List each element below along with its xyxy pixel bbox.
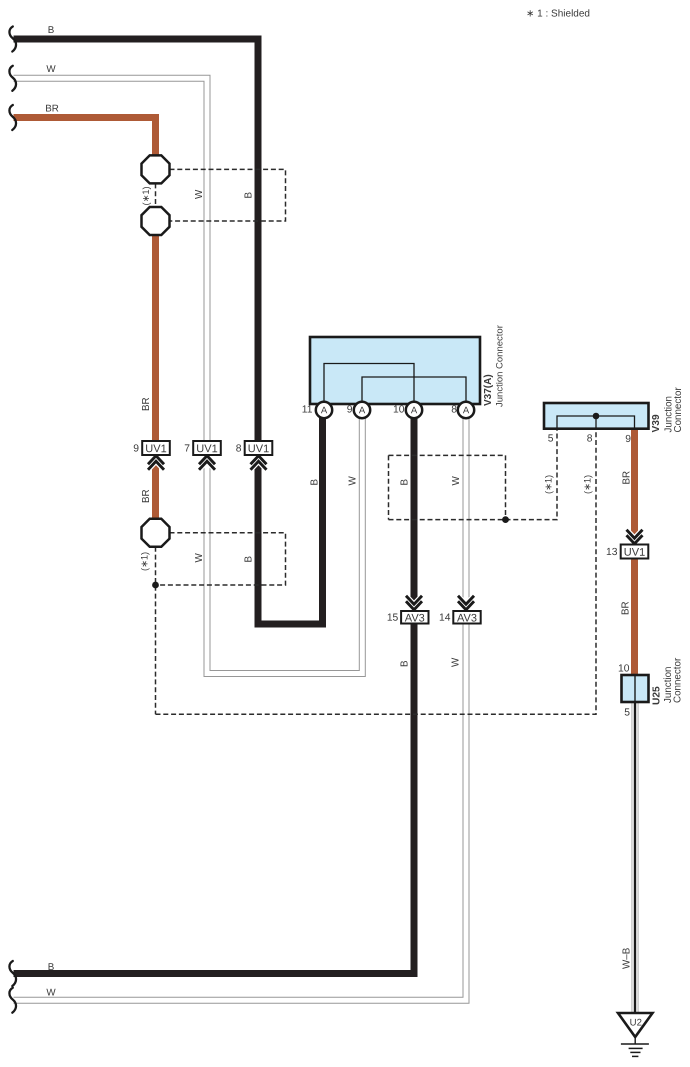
svg-text:U2: U2 bbox=[630, 1017, 642, 1028]
V37(A) internal link pin 9 to pin 8 bbox=[362, 377, 466, 403]
V37(A) pin 10 terminal A bbox=[406, 402, 422, 418]
wire B top: from left break through UV1 8 down, U-turn to V37(A) pin 11 bbox=[14, 39, 323, 624]
ground bar 4 bbox=[632, 1055, 638, 1057]
svg-text:UV1: UV1 bbox=[145, 443, 166, 455]
svg-text:W–B: W–B bbox=[622, 947, 633, 969]
svg-text:8: 8 bbox=[451, 404, 457, 415]
connector UV1 pin 9 box bbox=[142, 441, 170, 455]
break symbol wire BR top bbox=[9, 105, 16, 130]
junction connector U25 body bbox=[622, 675, 649, 702]
dashed shield run along bottom to V39 pin 8 bbox=[156, 429, 597, 715]
svg-text:U25: U25 bbox=[652, 686, 663, 705]
connector UV1 pin 13 chevron (down) bbox=[627, 530, 643, 544]
svg-text:9: 9 bbox=[625, 434, 631, 445]
connector UV1 pin 7 box bbox=[193, 441, 221, 455]
shield octagon 3 bbox=[142, 519, 170, 547]
V39 internal branch to pin 8 bbox=[595, 416, 597, 428]
junction dot on shield drain at octagon 3 branch bbox=[152, 582, 159, 589]
svg-text:A: A bbox=[321, 405, 328, 416]
ground bar 3 bbox=[630, 1051, 640, 1053]
svg-text:UV1: UV1 bbox=[248, 443, 269, 455]
svg-text:9: 9 bbox=[347, 404, 353, 415]
svg-text:V39: V39 bbox=[651, 414, 662, 432]
svg-text:W: W bbox=[451, 657, 462, 667]
svg-text:Connector: Connector bbox=[673, 657, 684, 703]
wire BR: V39 pin 9 down through UV1 13 to U25 pin 10 bbox=[631, 428, 638, 676]
svg-text:W: W bbox=[348, 476, 359, 486]
svg-text:(∗1): (∗1) bbox=[544, 475, 554, 494]
ground bar 2 bbox=[629, 1047, 643, 1049]
junction connector V39 body bbox=[544, 403, 649, 429]
svg-text:9: 9 bbox=[133, 443, 139, 454]
svg-text:W: W bbox=[194, 189, 205, 199]
break symbol wire B top bbox=[9, 27, 16, 52]
svg-text:W: W bbox=[46, 64, 56, 75]
connector UV1 pin 8 chevron bbox=[251, 456, 267, 470]
svg-text:BR: BR bbox=[141, 489, 152, 503]
svg-text:10: 10 bbox=[618, 663, 630, 674]
svg-text:5: 5 bbox=[548, 433, 554, 444]
svg-text:Connector: Connector bbox=[673, 387, 684, 433]
svg-text:(∗1): (∗1) bbox=[583, 475, 593, 494]
svg-text:8: 8 bbox=[236, 443, 242, 454]
svg-text:W: W bbox=[46, 987, 56, 998]
dashed shield box around B and W wires (pins 10/8) bbox=[389, 455, 506, 519]
svg-text:B: B bbox=[400, 660, 411, 667]
svg-text:AV3: AV3 bbox=[457, 612, 477, 624]
ground stem bbox=[634, 1037, 636, 1044]
svg-text:UV1: UV1 bbox=[196, 443, 217, 455]
V39 internal link pin 5 to pin 9 bbox=[557, 416, 635, 428]
svg-text:A: A bbox=[411, 405, 418, 416]
svg-text:11: 11 bbox=[302, 404, 313, 415]
wire W from V37(A) pin 8 down through AV3 14 to bottom-left break bbox=[14, 404, 467, 1000]
dashed shield link between octagon 1 and octagon 2 (*1) bbox=[155, 183, 157, 207]
connector AV3 pin 15 box bbox=[401, 611, 428, 625]
dashed shield link from box to V39 pin 5 bbox=[506, 429, 558, 520]
wire BR top: from left break to shield octagon 1 bbox=[14, 118, 156, 157]
svg-text:A: A bbox=[463, 405, 470, 416]
svg-text:W: W bbox=[194, 553, 205, 563]
junction dot at shield box corner bbox=[502, 516, 509, 523]
V37(A) pin 9 terminal A bbox=[354, 402, 370, 418]
dashed shield box at octagon 3 bbox=[158, 533, 286, 585]
svg-text:W: W bbox=[451, 476, 462, 486]
svg-text:8: 8 bbox=[587, 433, 593, 444]
svg-text:∗ 1 : Shielded: ∗ 1 : Shielded bbox=[526, 9, 590, 20]
connector AV3 pin 15 chevron (down) bbox=[406, 596, 422, 610]
svg-text:A: A bbox=[359, 405, 366, 416]
svg-text:(∗1): (∗1) bbox=[140, 552, 150, 571]
V37(A) pin 11 terminal A bbox=[316, 402, 332, 418]
wire W top: from left break through UV1 7 down and to V37(A) pin 9 bbox=[14, 78, 363, 673]
shield octagon 1 bbox=[142, 155, 170, 183]
break symbol wire W top bbox=[9, 66, 16, 91]
svg-text:V37(A): V37(A) bbox=[483, 374, 494, 406]
connector UV1 pin 9 chevron bbox=[148, 456, 164, 470]
U25 internal divider bbox=[634, 676, 636, 701]
svg-text:B: B bbox=[310, 479, 321, 486]
svg-text:B: B bbox=[48, 962, 55, 973]
wire BR: octagon 2 down through UV1 9 to octagon 3 bbox=[152, 234, 159, 520]
svg-text:7: 7 bbox=[184, 443, 190, 454]
connector AV3 pin 14 box bbox=[453, 611, 480, 625]
svg-text:BR: BR bbox=[141, 397, 152, 411]
connector UV1 pin 13 box bbox=[621, 545, 649, 559]
svg-text:10: 10 bbox=[393, 404, 405, 415]
shield octagon 2 bbox=[142, 207, 170, 235]
dashed shield box around top octagons (nets W and B) bbox=[170, 169, 286, 221]
svg-text:13: 13 bbox=[606, 547, 618, 558]
svg-text:Junction Connector: Junction Connector bbox=[495, 325, 506, 407]
connector UV1 pin 7 chevron bbox=[199, 456, 215, 470]
svg-text:UV1: UV1 bbox=[624, 547, 645, 559]
svg-text:BR: BR bbox=[622, 471, 633, 485]
V37(A) internal link pin 11 to pin 10 bbox=[324, 364, 414, 404]
svg-text:AV3: AV3 bbox=[405, 612, 425, 624]
wire B from V37(A) pin 10 down through AV3 15 to bottom-left break bbox=[14, 404, 415, 974]
junction connector V37(A) body bbox=[310, 337, 480, 404]
break symbol wire B bottom bbox=[9, 961, 16, 986]
svg-text:BR: BR bbox=[621, 601, 632, 615]
wire W-B from U25 pin 5 down to ground U2 bbox=[632, 701, 639, 1014]
V39 internal junction dot bbox=[593, 413, 600, 420]
ground bar 1 bbox=[621, 1043, 649, 1045]
connector AV3 pin 14 chevron (down) bbox=[458, 596, 474, 610]
dashed shield drain from octagon 3 down bbox=[155, 547, 157, 715]
V37(A) pin 8 terminal A bbox=[458, 402, 474, 418]
svg-text:B: B bbox=[48, 25, 55, 36]
svg-text:15: 15 bbox=[387, 613, 399, 624]
svg-text:5: 5 bbox=[624, 707, 630, 718]
ground U2 triangle bbox=[618, 1013, 653, 1037]
svg-text:B: B bbox=[244, 556, 255, 563]
svg-text:B: B bbox=[244, 192, 255, 199]
svg-text:B: B bbox=[400, 479, 411, 486]
break symbol wire W bottom bbox=[9, 988, 16, 1013]
connector UV1 pin 8 box bbox=[245, 441, 273, 455]
svg-text:BR: BR bbox=[45, 103, 59, 114]
svg-text:(∗1): (∗1) bbox=[141, 186, 151, 205]
svg-text:14: 14 bbox=[439, 613, 451, 624]
